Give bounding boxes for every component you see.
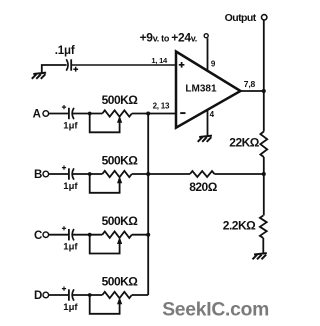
svg-text:500KΩ: 500KΩ (102, 93, 139, 107)
label .1uF for C1 (55, 45, 75, 57)
label 1uF for C4 (63, 242, 78, 253)
wire: C3 to potentiometer R2 (72, 173, 102, 175)
label 500K ohm for R3 (102, 214, 139, 228)
watermark SeekIC.com (162, 299, 269, 320)
wire: R4 to bus corner (row D) (132, 294, 148, 296)
resistor R5 22K ohm (260, 132, 267, 158)
svg-text:1μf: 1μf (63, 121, 78, 132)
junction: output node (262, 89, 266, 93)
label 22K ohm (229, 136, 260, 150)
junction: C2 / wiper tap node (88, 112, 92, 116)
svg-text:SeekIC.com: SeekIC.com (162, 299, 269, 320)
pin label 7,8 (244, 79, 256, 89)
wire: output terminal down to output node (263, 21, 265, 92)
op-amp U1 LM381 triangle (176, 52, 241, 128)
svg-text:A: A (33, 109, 41, 121)
svg-text:LM381: LM381 (185, 83, 217, 94)
potentiometer R1 500K ohm (element) (102, 110, 132, 116)
wire: C4 to potentiometer R3 (72, 234, 102, 236)
op-amp inverting input marker - (180, 112, 185, 114)
svg-text:.1μf: .1μf (55, 45, 75, 57)
capacitor C2 1uF (straight pos plate left, curved neg plate right) (62, 105, 74, 119)
label 500K ohm for R4 (102, 274, 139, 288)
label 500K ohm for R2 (102, 153, 139, 167)
pin label 4 (210, 110, 215, 119)
terminal: V+ supply (204, 34, 208, 38)
wire: R2 to bus and on to R6 (row B) (132, 173, 190, 175)
junction: C5 / wiper tap node (88, 293, 92, 297)
svg-text:1μf: 1μf (63, 302, 78, 313)
svg-text:1, 14: 1, 14 (151, 56, 168, 65)
ground G3 (bottom right) (253, 253, 267, 259)
junction: bus at row A (146, 112, 150, 116)
wire: C2 to potentiometer R1 (72, 113, 102, 115)
svg-text:820Ω: 820Ω (189, 180, 218, 194)
wire: R6 right end to feedback node (215, 173, 264, 175)
label 2.2K ohm (223, 219, 256, 233)
input terminal C (34, 230, 49, 242)
pin label 9 (211, 60, 216, 69)
svg-text:1μf: 1μf (63, 242, 78, 253)
potentiometer R3 wiper arrow and tie-down loop (90, 235, 123, 254)
potentiometer R1 wiper arrow and tie-down loop (90, 114, 123, 133)
potentiometer R4 500K ohm (element) (102, 292, 132, 298)
wire: summing bus (vertical) (147, 114, 149, 296)
junction: C4 / wiper tap node (88, 233, 92, 237)
svg-text:C: C (34, 230, 42, 242)
wire: terminal B to capacitor C3 (49, 173, 69, 175)
wire: pin 4 down to ground G2 (207, 110, 209, 136)
input terminal D (34, 290, 49, 302)
resistor R7 2.2K ohm (260, 216, 267, 239)
potentiometer R2 500K ohm (element) (102, 171, 132, 177)
svg-text:500KΩ: 500KΩ (102, 274, 139, 288)
svg-text:D: D (34, 290, 42, 302)
label LM381 (185, 83, 217, 94)
junction: bus at row B (146, 172, 150, 176)
potentiometer R2 wiper arrow and tie-down loop (90, 174, 123, 193)
capacitor C3 1uF (straight pos plate left, curved neg plate right) (62, 166, 74, 180)
label 820 ohm (189, 180, 218, 194)
svg-text:Output: Output (225, 12, 257, 24)
svg-text:+9v. to +24v.: +9v. to +24v. (140, 31, 197, 45)
label Output (225, 12, 257, 24)
pin label 2, 13 (153, 102, 170, 111)
label 1uF for C2 (63, 121, 78, 132)
capacitor C5 1uF (straight pos plate left, curved neg plate right) (62, 287, 74, 301)
input terminal B (34, 169, 49, 181)
wire: supply terminal down to pin 9 (207, 38, 209, 71)
svg-text:22KΩ: 22KΩ (229, 136, 260, 150)
op-amp noninverting input marker + (179, 62, 185, 68)
wire: terminal D to capacitor C5 (49, 294, 69, 296)
svg-text:4: 4 (210, 110, 215, 119)
wire: C1 to op-amp pin 1,14 (71, 64, 176, 66)
svg-text:500KΩ: 500KΩ (102, 153, 139, 167)
junction: C3 / wiper tap node (88, 172, 92, 176)
wire: terminal A to capacitor C2 (49, 113, 69, 115)
wire: C5 to potentiometer R4 (72, 294, 102, 296)
ground G2 (op-amp pin 4) (198, 136, 212, 142)
junction: bus at row C (146, 233, 150, 237)
label +9v. to +24v. (140, 31, 197, 45)
wire: terminal C to capacitor C4 (49, 234, 69, 236)
wire: R7 down to ground G3 (262, 238, 264, 253)
input terminal A (33, 109, 49, 121)
wire: R5 to feedback node (263, 157, 265, 216)
label 1uF for C3 (63, 181, 78, 192)
wire: output node down to R5 (263, 91, 265, 132)
potentiometer R4 wiper arrow and tie-down loop (90, 295, 123, 314)
capacitor C4 1uF (straight pos plate left, curved neg plate right) (62, 226, 74, 240)
capacitor C1 .1uF (curved neg plate left, straight pos plate right) (66, 59, 78, 71)
wire: ground G1 up and right to capacitor C1 (42, 65, 67, 73)
junction: feedback node (262, 172, 266, 176)
svg-text:9: 9 (211, 60, 216, 69)
wire: op-amp pins 7,8 to output node (240, 90, 264, 92)
svg-text:2.2KΩ: 2.2KΩ (223, 219, 256, 233)
pin label 1, 14 (151, 56, 168, 65)
label 500K ohm for R1 (102, 93, 139, 107)
svg-text:B: B (34, 169, 42, 181)
svg-text:7,8: 7,8 (244, 79, 256, 89)
wire: R3 to bus (row C) (132, 234, 148, 236)
label 1uF for C5 (63, 302, 78, 313)
potentiometer R3 500K ohm (element) (102, 232, 132, 238)
wire: R1 to op-amp pin 2, 13 (A row joins bus) (132, 113, 176, 115)
svg-text:500KΩ: 500KΩ (102, 214, 139, 228)
terminal: Output (262, 15, 267, 20)
ground G1 (top-left) (32, 73, 46, 79)
svg-text:2, 13: 2, 13 (153, 102, 170, 111)
resistor R6 820 ohm (feedback) (190, 171, 215, 177)
svg-text:1μf: 1μf (63, 181, 78, 192)
